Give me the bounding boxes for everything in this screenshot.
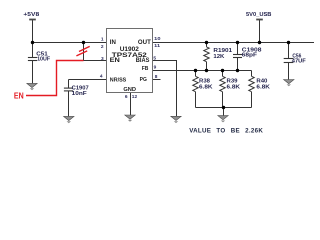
svg-text:5: 5 <box>153 55 156 61</box>
svg-text:5V0_USB: 5V0_USB <box>246 12 271 18</box>
svg-text:R38: R38 <box>199 78 210 84</box>
svg-text:PG: PG <box>140 77 147 83</box>
svg-text:12: 12 <box>132 94 138 100</box>
svg-text:BIAS: BIAS <box>136 57 150 64</box>
svg-text:10UF: 10UF <box>37 57 50 63</box>
svg-text:8: 8 <box>155 74 158 80</box>
svg-text:6.8K: 6.8K <box>227 85 241 91</box>
svg-text:EN: EN <box>14 92 24 101</box>
svg-text:11: 11 <box>154 43 160 49</box>
svg-text:6.8K: 6.8K <box>199 85 213 91</box>
svg-text:NR/SS: NR/SS <box>110 78 127 84</box>
svg-text:12K: 12K <box>213 54 224 60</box>
svg-text:OUT: OUT <box>138 39 151 46</box>
svg-text:6.8K: 6.8K <box>256 85 270 91</box>
svg-text:10: 10 <box>154 36 161 42</box>
svg-text:3: 3 <box>101 56 104 62</box>
svg-text:VALUE TO BE 2.26K: VALUE TO BE 2.26K <box>189 127 263 134</box>
svg-text:R39: R39 <box>227 78 238 84</box>
svg-text:IN: IN <box>110 39 116 46</box>
svg-text:68pF: 68pF <box>242 53 258 59</box>
svg-text:6: 6 <box>125 94 128 100</box>
svg-text:+5V8: +5V8 <box>23 12 40 18</box>
svg-text:4: 4 <box>100 73 103 79</box>
svg-text:EN: EN <box>110 57 120 64</box>
svg-text:47UF: 47UF <box>292 59 307 65</box>
svg-text:FB: FB <box>142 66 149 72</box>
svg-text:R40: R40 <box>256 78 267 84</box>
svg-text:1: 1 <box>101 36 104 42</box>
svg-text:2: 2 <box>101 44 104 50</box>
svg-text:10nF: 10nF <box>72 91 87 97</box>
svg-text:9: 9 <box>154 64 157 70</box>
svg-text:GND: GND <box>123 87 136 93</box>
